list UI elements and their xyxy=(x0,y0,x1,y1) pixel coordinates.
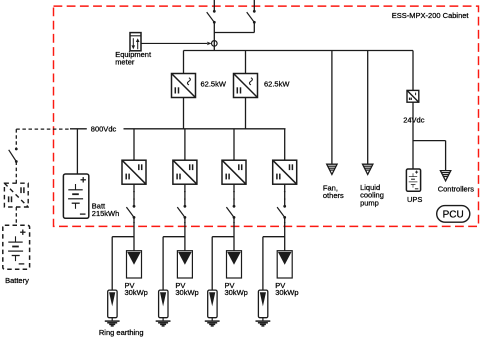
wire: AC bus xyxy=(184,50,414,52)
wire: DC bus to DC/DC converter 2 xyxy=(184,129,186,160)
wire: DC/DC 2 to PV switch 2 xyxy=(184,184,186,206)
wire: DC/DC 3 to PV switch 3 xyxy=(233,184,235,206)
external DC/DC converter (optional, dashed) xyxy=(4,183,28,207)
wire: branch to surge arrester 3 xyxy=(212,236,234,238)
surge arrester 3 xyxy=(208,290,217,318)
wire: branch to surge arrester 1 xyxy=(112,236,134,238)
wire: PV switch 1 down to PV module 1 xyxy=(133,217,135,250)
svg-text:UPS: UPS xyxy=(407,195,422,204)
svg-text:30kWp: 30kWp xyxy=(275,288,298,297)
svg-text:Ring earthing: Ring earthing xyxy=(99,328,144,337)
DC/DC converter 4 xyxy=(273,160,297,184)
wire: inverter 2 to DC bus xyxy=(245,98,247,129)
external battery (optional, dashed) xyxy=(3,225,30,269)
DC/DC converter 1 xyxy=(122,160,146,184)
CT measurement point (circle) xyxy=(212,41,218,47)
wire: DC bus to battery xyxy=(76,129,78,174)
wire: inverter 1 to DC bus xyxy=(183,98,185,129)
wire: dashed drop to external DC/DC xyxy=(15,129,17,149)
DC/DC converter 3 xyxy=(222,160,246,184)
ground: ring earth 3 xyxy=(205,318,220,326)
wire: PV switch 2 down to PV module 2 xyxy=(184,217,186,250)
svg-text:Controllers: Controllers xyxy=(438,184,475,193)
switch: PV string 4 disconnect xyxy=(277,205,286,219)
PV module array 2 xyxy=(177,251,192,278)
PV module array 3 xyxy=(227,251,242,278)
switch: feeder 2 disconnect xyxy=(247,10,256,24)
svg-text:800Vdc: 800Vdc xyxy=(91,125,117,134)
svg-text:62.5kW: 62.5kW xyxy=(201,79,227,88)
DC/DC converter 2 xyxy=(173,160,197,184)
wire: dashed to external DC/DC xyxy=(15,162,17,184)
load arrow: fan, others xyxy=(327,164,337,174)
surge arrester 2 xyxy=(159,290,168,318)
ground: ring earth 4 xyxy=(256,318,271,326)
wire: AC bus to fan load xyxy=(331,51,333,165)
wire: branch to surge arrester 4 xyxy=(263,236,285,238)
svg-text:62.5kW: 62.5kW xyxy=(264,79,290,88)
svg-text:pump: pump xyxy=(360,198,379,207)
PCU label bubble xyxy=(437,206,470,223)
svg-text:30kWp: 30kWp xyxy=(175,288,198,297)
switch: PV string 1 disconnect xyxy=(126,205,135,219)
PV module array 4 xyxy=(277,251,292,278)
battery Batt 215kWh xyxy=(63,174,88,218)
wire: PV switch 4 down to PV module 4 xyxy=(284,217,286,250)
switch: PV string 2 disconnect xyxy=(177,205,186,219)
wire: AC bus to inverter 1 xyxy=(183,51,185,74)
ground: ring earth 2 xyxy=(156,318,171,326)
24Vdc power supply (AC/DC converter, small) xyxy=(407,90,419,102)
wire: feeder 2 drop xyxy=(253,22,255,32)
switch: feeder 1 disconnect xyxy=(207,10,216,24)
svg-text:30kWp: 30kWp xyxy=(125,288,148,297)
wire: 24Vdc distribution down xyxy=(412,102,414,169)
surge arrester 4 xyxy=(258,290,267,318)
wire: DC/DC 4 to PV switch 4 xyxy=(284,184,286,206)
svg-text:215kWh: 215kWh xyxy=(92,209,120,218)
wire: dashed external DC/DC to battery xyxy=(15,207,17,225)
cabinet boundary (red dashed) xyxy=(54,6,479,226)
wire: feeder 1 down to AC bus xyxy=(213,22,215,50)
svg-text:ESS-MPX-200 Cabinet: ESS-MPX-200 Cabinet xyxy=(392,11,470,20)
wire: feeder 2 joins feeder 1 xyxy=(214,32,254,34)
wire: AC bus down to 24Vdc PSU xyxy=(412,51,414,91)
svg-text:30kWp: 30kWp xyxy=(225,288,248,297)
load arrow: liquid cooling pump xyxy=(363,164,373,174)
wire: AC bus to inverter 2 xyxy=(245,51,247,74)
wire: branch to surge arrester 2 xyxy=(163,236,185,238)
switch: external battery disconnect xyxy=(9,148,18,163)
wire: DC bus to DC/DC converter 4 xyxy=(284,129,286,160)
load arrow: controllers xyxy=(440,171,450,181)
wire: DC bus to DC/DC converter 3 xyxy=(233,129,235,160)
UPS (battery unit) xyxy=(406,169,420,191)
wire: grid feeder 1 xyxy=(213,0,215,11)
wire: DC bus dashed approach (external battery tie) xyxy=(16,128,70,130)
svg-text:24Vdc: 24Vdc xyxy=(403,116,425,125)
ground: ring earth 1 xyxy=(105,318,120,326)
wire: DC bus to DC/DC converter 1 xyxy=(133,129,135,160)
switch: PV string 3 disconnect xyxy=(226,205,235,219)
wire: PV switch 3 down to PV module 3 xyxy=(233,217,235,250)
svg-text:meter: meter xyxy=(115,57,135,66)
wire: DC bus 800Vdc xyxy=(70,128,87,130)
wire: DC/DC 1 to PV switch 1 xyxy=(133,184,135,206)
svg-text:others: others xyxy=(323,191,344,200)
inverter 2 (AC/DC converter) xyxy=(234,74,258,98)
svg-text:Battery: Battery xyxy=(5,276,29,285)
wire: branch to controllers xyxy=(413,140,446,142)
svg-text:PCU: PCU xyxy=(443,209,464,220)
wire: AC bus to liquid cooling pump xyxy=(367,51,369,165)
PV module array 1 xyxy=(127,251,142,278)
wire: grid feeder 2 xyxy=(253,0,255,11)
inverter 1 (AC/DC converter) xyxy=(172,74,196,98)
surge arrester 1 xyxy=(108,290,117,318)
wire: meter sense lead with arrowhead xyxy=(141,42,208,44)
equipment meter xyxy=(130,33,141,51)
